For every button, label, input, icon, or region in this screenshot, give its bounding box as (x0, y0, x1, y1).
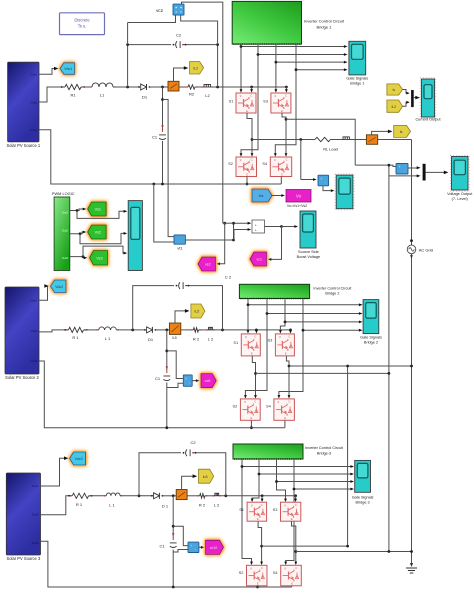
svg-text:Out1: Out1 (30, 299, 37, 303)
svg-text:C: C (261, 503, 263, 507)
svg-text:Bridge 2: Bridge 2 (364, 341, 378, 345)
svg-text:E: E (284, 416, 286, 420)
svg-text:Gate Signals: Gate Signals (346, 76, 368, 80)
svg-text:Ts s.: Ts s. (78, 24, 87, 29)
svg-text:C: C (288, 335, 290, 339)
svg-text:C: C (285, 94, 287, 98)
svg-text:Voltage Output: Voltage Output (447, 192, 473, 196)
svg-text:S1: S1 (239, 507, 244, 512)
svg-text:Out3: Out3 (62, 256, 69, 260)
svg-text:L 1: L 1 (105, 336, 111, 341)
svg-text:S3: S3 (273, 507, 278, 512)
svg-text:S2: S2 (228, 161, 233, 166)
svg-text:C: C (295, 503, 297, 507)
svg-text:S2: S2 (239, 570, 244, 575)
svg-text:+: + (255, 229, 257, 233)
svg-text:R2: R2 (189, 92, 195, 97)
svg-text:C: C (286, 158, 288, 162)
svg-text:+: + (255, 223, 257, 227)
svg-text:Vs: Vs (259, 193, 264, 198)
svg-text:C: C (254, 400, 256, 404)
svg-text:vc1: vc1 (256, 258, 262, 262)
svg-text:Source Side: Source Side (298, 250, 319, 254)
svg-text:C: C (250, 94, 252, 98)
svg-text:R 2: R 2 (199, 503, 206, 508)
svg-text:Bridge-3: Bridge-3 (317, 452, 331, 456)
svg-text:C: C (254, 335, 256, 339)
svg-text:Out1: Out1 (30, 73, 37, 77)
svg-text:Vs1: Vs1 (95, 208, 101, 212)
svg-text:Bridge 2: Bridge 2 (325, 292, 339, 296)
svg-text:-: - (325, 181, 326, 185)
svg-text:E: E (281, 109, 283, 113)
svg-text:E: E (281, 172, 283, 176)
svg-text:Vdc2: Vdc2 (55, 285, 63, 289)
svg-text:Inverter Control Circuit: Inverter Control Circuit (304, 19, 345, 24)
svg-text:Bridge 1: Bridge 1 (317, 25, 333, 30)
svg-text:iL2: iL2 (193, 66, 198, 70)
svg-text:Solar PV Source 2: Solar PV Source 2 (5, 375, 39, 380)
svg-text:E: E (291, 582, 293, 586)
svg-text:L1: L1 (100, 93, 105, 98)
svg-text:Gate Signals: Gate Signals (352, 496, 374, 500)
svg-text:E: E (257, 517, 259, 521)
svg-text:E: E (285, 352, 287, 356)
svg-text:Solar PV Source 3: Solar PV Source 3 (7, 556, 41, 561)
svg-text:+: + (190, 544, 192, 548)
svg-text:Solar PV Source 1: Solar PV Source 1 (6, 143, 40, 148)
svg-text:RL Load: RL Load (323, 147, 338, 152)
svg-text:E: E (246, 109, 248, 113)
svg-text:-: - (189, 381, 190, 385)
svg-text:Inverter Control Circuit: Inverter Control Circuit (313, 287, 352, 291)
svg-text:L 1: L 1 (109, 503, 115, 508)
svg-text:D1: D1 (148, 337, 154, 342)
svg-text:C 2: C 2 (225, 275, 232, 280)
svg-text:D 1: D 1 (162, 504, 169, 509)
svg-text:Gate Signals: Gate Signals (360, 336, 382, 340)
svg-text:-: - (404, 169, 405, 173)
svg-text:Vdc3: Vdc3 (75, 457, 83, 461)
svg-text:Out2: Out2 (62, 229, 69, 233)
svg-text:Bridge 1: Bridge 1 (350, 81, 364, 85)
svg-text:Out1: Out1 (32, 484, 39, 488)
svg-text:E: E (257, 582, 259, 586)
svg-text:C2: C2 (176, 33, 182, 38)
svg-text:Boost Voltage: Boost Voltage (297, 255, 320, 259)
svg-text:C1: C1 (159, 544, 165, 549)
svg-text:S4: S4 (273, 570, 279, 575)
svg-text:L2: L2 (205, 93, 210, 98)
svg-text:Out2: Out2 (30, 329, 37, 333)
svg-text:C1: C1 (152, 135, 158, 140)
svg-text:S1: S1 (229, 99, 234, 104)
svg-text:vc5: vc5 (205, 379, 211, 383)
svg-text:E: E (251, 352, 253, 356)
svg-text:vc10: vc10 (210, 546, 218, 550)
svg-text:vc2: vc2 (156, 8, 163, 13)
svg-text:iL5: iL5 (172, 336, 176, 340)
svg-text:C2: C2 (190, 440, 196, 445)
svg-text:IL2: IL2 (391, 105, 396, 109)
svg-text:S3: S3 (263, 99, 268, 104)
svg-text:Vo=Vs1+Vs2: Vo=Vs1+Vs2 (287, 204, 307, 208)
svg-text:R1: R1 (70, 93, 76, 98)
svg-text:(7- Level): (7- Level) (452, 197, 469, 201)
svg-text:C: C (250, 158, 252, 162)
svg-text:Inverter Control Circuit: Inverter Control Circuit (305, 446, 344, 450)
svg-text:S4: S4 (262, 161, 268, 166)
svg-text:E: E (246, 172, 248, 176)
svg-text:Out2: Out2 (32, 512, 39, 516)
svg-text:S1: S1 (233, 340, 238, 345)
svg-text:R 1: R 1 (76, 502, 83, 507)
svg-text:+: + (399, 165, 401, 169)
svg-text:Out3: Out3 (32, 541, 39, 545)
svg-text:Out1: Out1 (62, 211, 69, 215)
svg-text:Bridge 3: Bridge 3 (356, 501, 370, 505)
svg-text:R 1: R 1 (72, 335, 79, 340)
svg-text:Vs3: Vs3 (96, 256, 102, 260)
svg-text:vt1: vt1 (177, 246, 182, 251)
svg-text:iL5: iL5 (195, 310, 200, 314)
svg-text:Out3: Out3 (30, 359, 37, 363)
svg-text:S2: S2 (233, 404, 238, 409)
svg-text:AC Grid: AC Grid (419, 247, 433, 252)
svg-text:-: - (195, 547, 196, 551)
svg-text:C: C (261, 566, 263, 570)
svg-text:C: C (295, 566, 297, 570)
svg-text:C: C (288, 400, 290, 404)
svg-text:Current Output: Current Output (415, 118, 441, 122)
svg-text:R 2: R 2 (193, 337, 200, 342)
svg-text:D1: D1 (142, 95, 148, 100)
svg-text:Is: Is (400, 130, 403, 134)
svg-text:vs2: vs2 (205, 263, 211, 267)
svg-text:Vo: Vo (296, 194, 302, 199)
svg-text:E: E (250, 416, 252, 420)
svg-text:+: + (185, 377, 187, 381)
svg-text:Vdc1: Vdc1 (64, 67, 72, 71)
svg-text:S4: S4 (266, 404, 272, 409)
svg-text:E: E (291, 517, 293, 521)
svg-text:PWM LOGIC: PWM LOGIC (52, 191, 75, 196)
svg-text:Out2: Out2 (30, 100, 37, 104)
svg-text:iL8: iL8 (203, 475, 208, 479)
svg-text:Out3: Out3 (30, 128, 37, 132)
svg-text:L 2: L 2 (214, 503, 220, 508)
svg-text:+: + (320, 177, 322, 181)
svg-text:Vs2: Vs2 (95, 231, 101, 235)
svg-text:L 2: L 2 (208, 337, 214, 342)
svg-text:Is: Is (392, 88, 395, 92)
svg-text:Discrete: Discrete (74, 18, 90, 23)
svg-text:S3: S3 (268, 338, 273, 343)
svg-text:C1: C1 (155, 376, 161, 381)
